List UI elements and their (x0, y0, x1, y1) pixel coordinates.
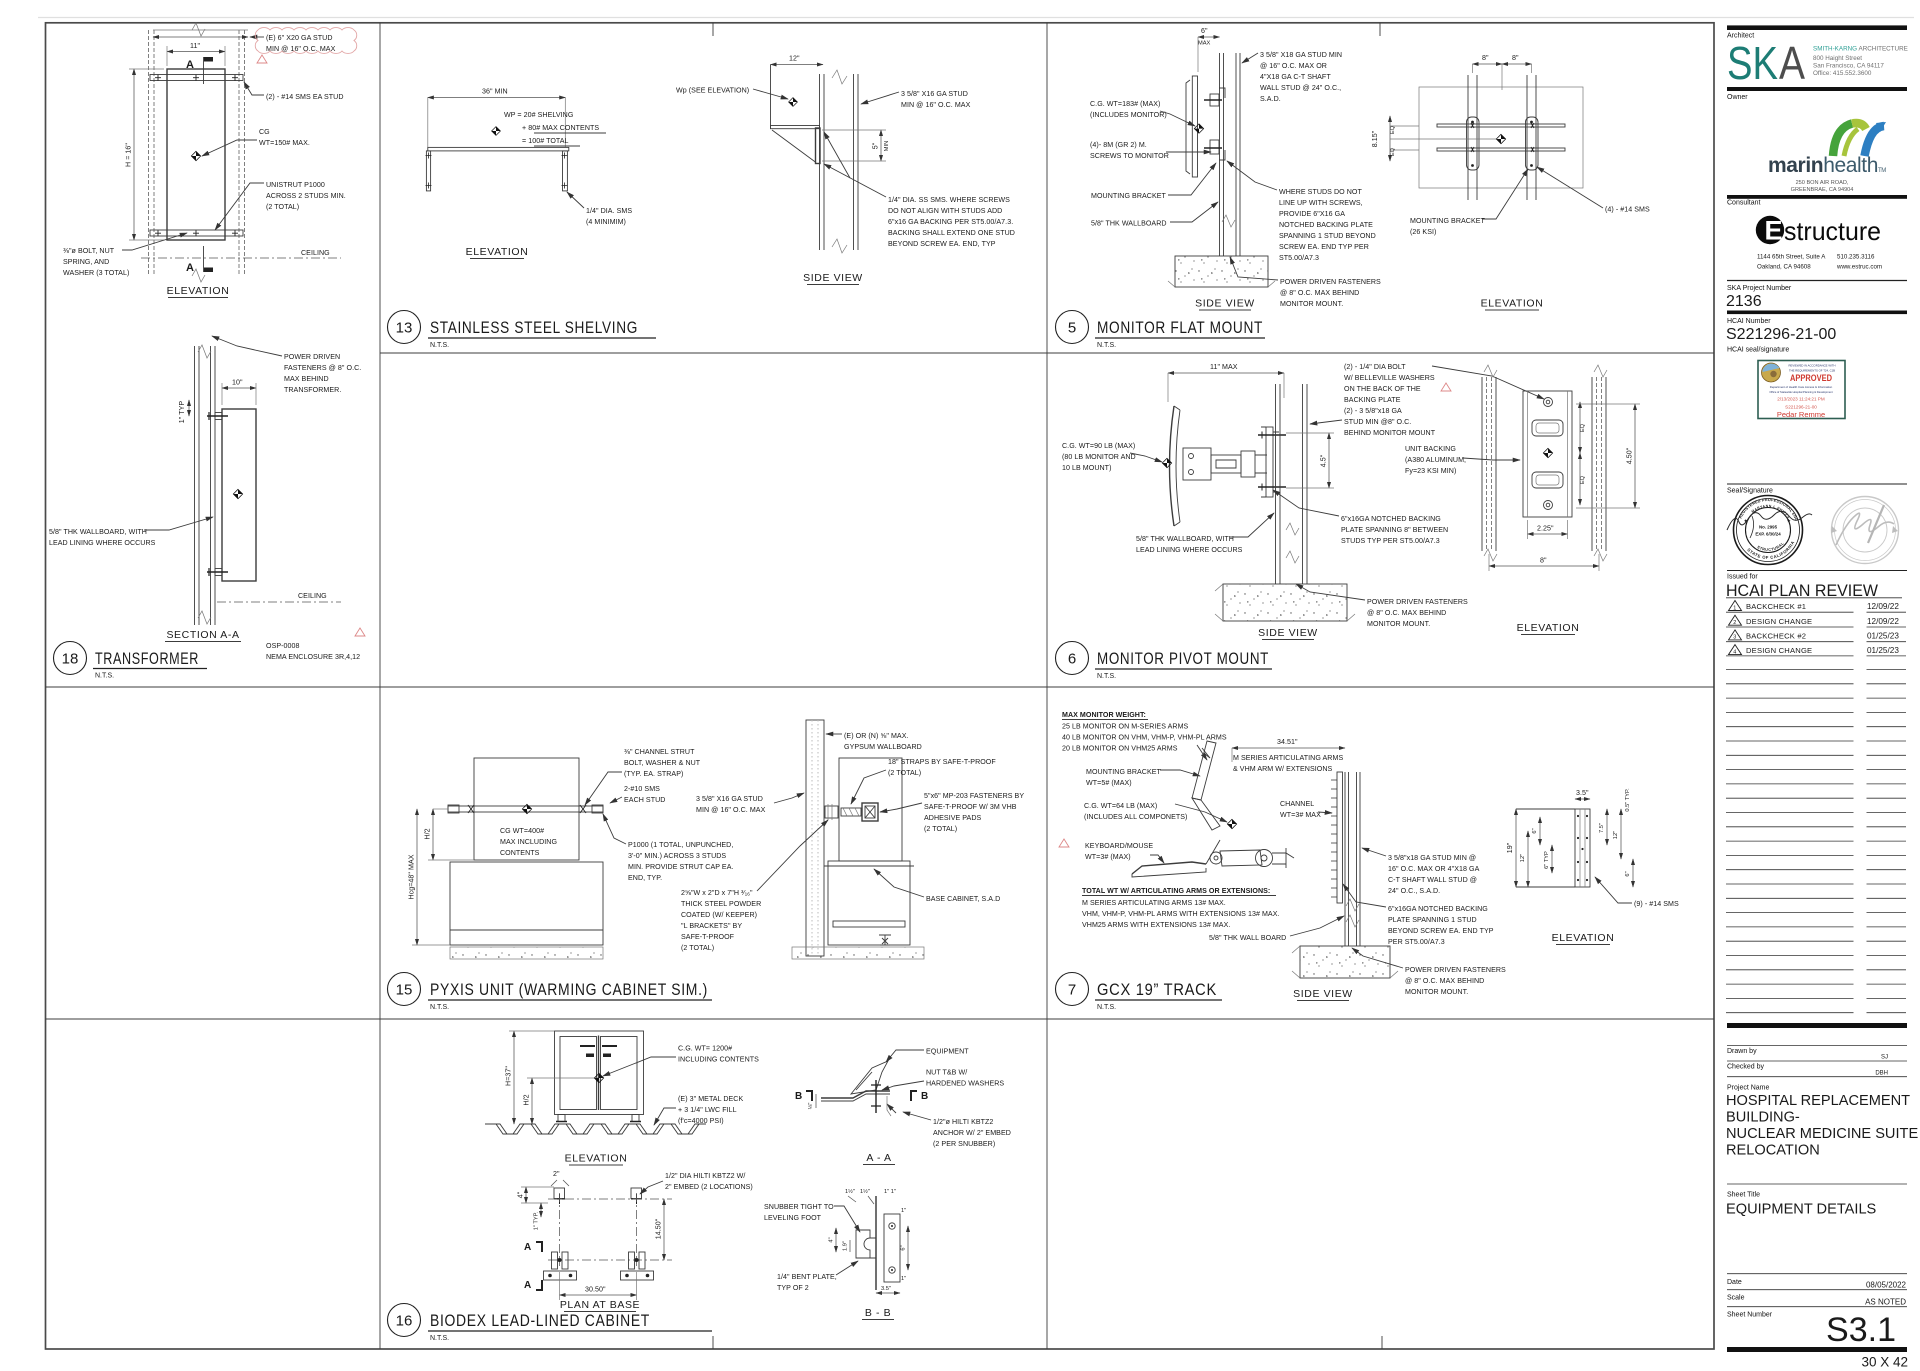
svg-text:RELOCATION: RELOCATION (1726, 1143, 1820, 1159)
svg-text:8": 8" (1540, 557, 1547, 565)
svg-text:MAX INCLUDING: MAX INCLUDING (500, 838, 557, 846)
svg-text:7.5": 7.5" (1599, 823, 1605, 833)
section A-A wall lines (194, 346, 196, 625)
svg-text:(4) - #14 SMS: (4) - #14 SMS (1605, 206, 1650, 214)
panel grid divider vertical x=380 (379, 23, 381, 1349)
svg-text:H=37": H=37" (505, 1066, 513, 1086)
section B-B drawing (875, 1196, 877, 1290)
svg-text:2" EMBED (2 LOCATIONS): 2" EMBED (2 LOCATIONS) (665, 1183, 753, 1191)
svg-text:ST5.00/A7.3: ST5.00/A7.3 (1279, 254, 1319, 262)
svg-text:2.25": 2.25" (1537, 525, 1554, 533)
svg-text:MONITOR MOUNT.: MONITOR MOUNT. (1280, 300, 1343, 308)
svg-text:MONITOR MOUNT.: MONITOR MOUNT. (1367, 620, 1430, 628)
svg-text:(2) - 1/4" DIA BOLT: (2) - 1/4" DIA BOLT (1344, 363, 1406, 371)
svg-text:LEAD LINING WHERE OCCURS: LEAD LINING WHERE OCCURS (1136, 546, 1243, 554)
svg-text:SIDE VIEW: SIDE VIEW (1258, 627, 1318, 639)
bolts elevation (1544, 398, 1553, 407)
wall (15 side view) (806, 720, 824, 956)
svg-text:8": 8" (1482, 54, 1489, 62)
svg-text:40 LB MONITOR ON VHM, VHM-P, V: 40 LB MONITOR ON VHM, VHM-P, VHM-PL ARMS (1062, 734, 1227, 742)
svg-text:MAX MONITOR WEIGHT:: MAX MONITOR WEIGHT: (1062, 711, 1146, 719)
shelf top (elevation) (428, 147, 569, 151)
blank revision rule lines (1726, 670, 1906, 1013)
svg-text:5"x6" MP-203 FASTENERS BY: 5"x6" MP-203 FASTENERS BY (924, 792, 1024, 800)
svg-text:4"X18 GA C-T SHAFT: 4"X18 GA C-T SHAFT (1260, 73, 1331, 81)
svg-text:TRANSFORMER: TRANSFORMER (95, 650, 199, 668)
svg-text:SIDE VIEW: SIDE VIEW (803, 272, 863, 284)
svg-text:3: 3 (1733, 635, 1736, 641)
svg-text:H/2: H/2 (424, 828, 432, 839)
svg-text:HARDENED WASHERS: HARDENED WASHERS (926, 1080, 1004, 1088)
svg-text:CG: CG (259, 128, 270, 136)
svg-text:GYPSUM WALLBOARD: GYPSUM WALLBOARD (844, 743, 922, 751)
svg-text:3.5": 3.5" (881, 1286, 891, 1292)
svg-text:(4)- 8M (GR 2) M.: (4)- 8M (GR 2) M. (1090, 141, 1147, 149)
svg-text:H/2: H/2 (523, 1094, 531, 1105)
svg-text:C.G. WT=90 LB (MAX): C.G. WT=90 LB (MAX) (1062, 442, 1135, 450)
svg-text:MAX BEHIND: MAX BEHIND (284, 375, 329, 383)
studs elevation (5) (1467, 75, 1469, 200)
svg-text:Sheet Number: Sheet Number (1727, 1312, 1773, 1319)
estructure logo (1756, 216, 1784, 244)
svg-text:15: 15 (396, 982, 413, 999)
svg-text:GREENBRAE, CA 94904: GREENBRAE, CA 94904 (1791, 187, 1854, 193)
svg-text:CEILING: CEILING (301, 249, 330, 257)
date row (1727, 1273, 1907, 1275)
svg-text:No. 2995: No. 2995 (1759, 525, 1778, 530)
svg-text:C-T SHAFT WALL STUD @: C-T SHAFT WALL STUD @ (1388, 876, 1477, 884)
8.15 EQ EQ dim (1389, 116, 1391, 161)
svg-text:2-#10 SMS: 2-#10 SMS (624, 785, 660, 793)
bottom unistrut P1000 (150, 230, 243, 236)
detail 7 title bubble (1056, 973, 1089, 1006)
svg-text:(2 TOTAL): (2 TOTAL) (266, 203, 299, 211)
svg-text:P1000 (1 TOTAL, UNPUNCHED,: P1000 (1 TOTAL, UNPUNCHED, (628, 841, 733, 849)
strap fastener assembly (825, 806, 838, 818)
14.50 dim (663, 1199, 665, 1260)
svg-text:SCREW EA. END TYP PER: SCREW EA. END TYP PER (1279, 243, 1369, 251)
svg-text:4": 4" (829, 1237, 835, 1242)
wall (7) (1344, 772, 1346, 946)
seal/signature divider (1727, 483, 1907, 485)
svg-text:2: 2 (1733, 620, 1736, 626)
svg-text:5: 5 (1068, 320, 1076, 337)
svg-text:H = 16": H = 16" (125, 143, 133, 167)
svg-text:(E) OR (N) ⅝" MAX.: (E) OR (N) ⅝" MAX. (844, 732, 909, 740)
svg-text:(26 KSI): (26 KSI) (1410, 228, 1436, 236)
svg-text:(9) - #14 SMS: (9) - #14 SMS (1634, 900, 1679, 908)
pyxis cabinet elevation (474, 758, 579, 860)
screws at intersections (1471, 123, 1534, 152)
CG pivot (1162, 458, 1171, 467)
svg-text:@ 16" O.C. MAX OR: @ 16" O.C. MAX OR (1260, 62, 1327, 70)
svg-text:N.T.S.: N.T.S. (1097, 1004, 1116, 1011)
svg-text:ELEVATION: ELEVATION (1517, 622, 1580, 634)
revision row 3 backcheck #2 (1726, 630, 1906, 642)
svg-text:(2) - 3 5/8"x18 GA: (2) - 3 5/8"x18 GA (1344, 407, 1402, 415)
svg-text:18: 18 (62, 651, 79, 668)
svg-text:ELEVATION: ELEVATION (466, 246, 529, 258)
svg-text:1/4" DIA. SMS: 1/4" DIA. SMS (586, 207, 632, 215)
svg-text:Department of Health Care Acce: Department of Health Care Access & Infor… (1770, 385, 1833, 389)
svg-text:7: 7 (1068, 982, 1076, 999)
svg-text:1/4" BENT PLATE,: 1/4" BENT PLATE, (777, 1273, 837, 1281)
svg-text:POWER DRIVEN FASTENERS: POWER DRIVEN FASTENERS (1280, 278, 1381, 286)
svg-text:A - A: A - A (866, 1152, 891, 1164)
revision cloud around note (255, 28, 356, 54)
svg-text:+ 80# MAX CONTENTS: + 80# MAX CONTENTS (522, 124, 599, 132)
svg-text:6"x16 GA BACKING PER ST5.00/A7: 6"x16 GA BACKING PER ST5.00/A7.3. (888, 218, 1013, 226)
svg-text:EXP. 6/30/24: EXP. 6/30/24 (1755, 532, 1781, 537)
backing plate side (1266, 427, 1273, 497)
transformer box section (222, 409, 256, 581)
svg-text:WT=150# MAX.: WT=150# MAX. (259, 139, 310, 147)
svg-text:MAX: MAX (1198, 41, 1211, 47)
svg-text:C.G. WT=64 LB (MAX): C.G. WT=64 LB (MAX) (1084, 802, 1157, 810)
svg-text:16: 16 (396, 1313, 413, 1330)
svg-text:1" 1": 1" 1" (884, 1189, 896, 1195)
svg-text:CEILING: CEILING (298, 592, 327, 600)
svg-text:KEYBOARD/MOUSE: KEYBOARD/MOUSE (1085, 842, 1153, 850)
detail 5 title bubble (1056, 311, 1089, 344)
8in dim (6) (1489, 565, 1599, 567)
biodex cabinet elevation (555, 1031, 644, 1115)
svg-text:Wp (SEE ELEVATION): Wp (SEE ELEVATION) (676, 87, 749, 95)
svg-text:TOTAL WT W/ ARTICULATING ARMS: TOTAL WT W/ ARTICULATING ARMS OR EXTENSI… (1082, 887, 1270, 895)
svg-text:WALL STUD @ 24" O.C.,: WALL STUD @ 24" O.C., (1260, 84, 1341, 92)
svg-text:APPROVED: APPROVED (1790, 373, 1832, 383)
4.5 dim (1328, 433, 1330, 488)
engineer signature scribble left (1727, 511, 1812, 530)
svg-text:HCAI PLAN REVIEW: HCAI PLAN REVIEW (1726, 582, 1878, 600)
concrete floor (7) (1300, 946, 1390, 978)
svg-text:(4 MINIMIM): (4 MINIMIM) (586, 218, 626, 226)
svg-text:3 5/8" X18 GA STUD MIN: 3 5/8" X18 GA STUD MIN (1260, 51, 1342, 59)
svg-text:01/25/23: 01/25/23 (1867, 646, 1899, 655)
titleblock top black bar (1727, 25, 1907, 30)
panel grid divider vertical x=1047 (1046, 23, 1048, 1349)
svg-text:24" O.C., S.A.D.: 24" O.C., S.A.D. (1388, 887, 1440, 895)
plan feet left (552, 1252, 558, 1269)
wall bracket plate (816, 128, 821, 164)
svg-text:1/2"ø HILTI KBTZ2: 1/2"ø HILTI KBTZ2 (933, 1118, 993, 1126)
CG pivot elevation (1543, 448, 1552, 457)
svg-text:END, TYP.: END, TYP. (628, 874, 662, 882)
svg-text:Project Name: Project Name (1727, 1085, 1770, 1092)
svg-text:12": 12" (1613, 831, 1619, 839)
svg-text:(E) 6" X20 GA STUD: (E) 6" X20 GA STUD (266, 34, 333, 42)
svg-text:B - B: B - B (865, 1307, 891, 1319)
svg-text:10": 10" (232, 379, 243, 387)
svg-text:5/8" THK WALL BOARD: 5/8" THK WALL BOARD (1209, 934, 1286, 942)
svg-text:2136: 2136 (1726, 293, 1762, 310)
slots (1532, 420, 1563, 436)
svg-text:www.estruc.com: www.estruc.com (1836, 264, 1882, 271)
svg-text:WT=5# (MAX): WT=5# (MAX) (1086, 779, 1132, 787)
svg-text:Date: Date (1727, 1279, 1742, 1286)
svg-text:E: E (1765, 216, 1783, 246)
svg-text:EACH STUD: EACH STUD (624, 796, 665, 804)
svg-text:TYP OF 2: TYP OF 2 (777, 1284, 809, 1292)
svg-text:⅛": ⅛" (808, 1103, 814, 1110)
svg-text:SAFE-T-PROOF: SAFE-T-PROOF (681, 933, 735, 941)
svg-text:GCX 19” TRACK: GCX 19” TRACK (1097, 981, 1217, 999)
3.5 dim (7) (1575, 798, 1590, 800)
svg-text:C.G. WT=183# (MAX): C.G. WT=183# (MAX) (1090, 100, 1160, 108)
svg-text:MONITOR FLAT MOUNT: MONITOR FLAT MOUNT (1097, 319, 1263, 337)
CG symbol shelving elevation (492, 127, 501, 136)
revision row 4 design change (1726, 645, 1906, 656)
svg-text:PYXIS UNIT (WARMING CABINET: PYXIS UNIT (WARMING CABINET SIM.) (430, 981, 708, 999)
4.50 dim (6) (1634, 404, 1636, 508)
svg-text:1": 1" (901, 1276, 906, 1282)
1in TYP dim plan (540, 1203, 542, 1217)
SKA project number bar (1727, 280, 1907, 282)
concrete base (5) (1175, 256, 1268, 287)
bottom black bar (1727, 1347, 1907, 1352)
svg-text:PER ST5.00/A7.3: PER ST5.00/A7.3 (1388, 938, 1445, 946)
svg-text:18" STRAPS BY SAFE-T-PROOF: 18" STRAPS BY SAFE-T-PROOF (888, 758, 996, 766)
svg-text:14.50": 14.50" (655, 1218, 663, 1239)
floor strip (15 elevation) (450, 947, 603, 959)
svg-text:08/05/2022: 08/05/2022 (1866, 1281, 1907, 1290)
svg-text:FASTENERS @ 8" O.C.: FASTENERS @ 8" O.C. (284, 364, 361, 372)
detail 16 title bubble (388, 1304, 421, 1337)
svg-text:(E) 3" METAL DECK: (E) 3" METAL DECK (678, 1095, 743, 1103)
34.51 dim (1232, 747, 1345, 749)
svg-text:(TYP. EA. STRAP): (TYP. EA. STRAP) (624, 770, 683, 778)
marinhealth logo arch symbol (1833, 122, 1886, 156)
side view 12in dim (771, 64, 824, 66)
svg-text:Pedar Remme: Pedar Remme (1777, 410, 1825, 419)
base cabinet side (828, 861, 910, 945)
top 8in dims (1473, 63, 1503, 65)
svg-text:6"x16GA NOTCHED BACKING: 6"x16GA NOTCHED BACKING (1388, 905, 1488, 913)
HCAI approved stamp (1758, 361, 1845, 420)
svg-text:2/13/2023 11:24:21 PM: 2/13/2023 11:24:21 PM (1777, 397, 1825, 402)
wall break marks (198, 345, 211, 358)
svg-text:BOLT, WASHER & NUT: BOLT, WASHER & NUT (624, 759, 701, 767)
revision row 1 backcheck #1 (1726, 601, 1906, 613)
10 inch dimension (222, 387, 256, 389)
svg-text:SNUBBER TIGHT TO: SNUBBER TIGHT TO (764, 1203, 834, 1211)
svg-text:Issued for: Issued for (1727, 574, 1758, 581)
svg-text:12": 12" (1520, 854, 1526, 862)
svg-text:San Francisco, CA 94117: San Francisco, CA 94117 (1813, 63, 1884, 70)
svg-text:A: A (186, 262, 194, 274)
wall stud side view (819, 74, 821, 250)
svg-text:2": 2" (553, 1170, 560, 1178)
svg-text:20 LB MONITOR ON VHM25 ARMS: 20 LB MONITOR ON VHM25 ARMS (1062, 745, 1178, 753)
svg-text:3 5/8"x18 GA STUD MIN @: 3 5/8"x18 GA STUD MIN @ (1388, 854, 1476, 862)
misc elevation dims (1539, 817, 1541, 845)
svg-text:C.G. WT= 1200#: C.G. WT= 1200# (678, 1045, 732, 1053)
CG monitor flat mount (1194, 124, 1203, 133)
svg-text:6": 6" (901, 1245, 907, 1250)
svg-text:1" TYP.: 1" TYP. (534, 1211, 540, 1230)
delta triangle marker (257, 55, 267, 63)
svg-text:CHANNEL: CHANNEL (1280, 800, 1314, 808)
svg-text:UNIT BACKING: UNIT BACKING (1405, 445, 1456, 453)
CG symbol elevation (191, 151, 200, 160)
svg-text:16" O.C. MAX OR 4"X18 GA: 16" O.C. MAX OR 4"X18 GA (1388, 865, 1480, 873)
H=37 dim (513, 1031, 515, 1124)
svg-text:30 X 42: 30 X 42 (1861, 1355, 1908, 1370)
svg-text:N.T.S.: N.T.S. (430, 1335, 449, 1342)
svg-text:W/ BELLEVILLE WASHERS: W/ BELLEVILLE WASHERS (1344, 374, 1435, 382)
svg-text:SKA Project Number: SKA Project Number (1727, 285, 1792, 292)
svg-text:34.51": 34.51" (1277, 738, 1298, 746)
svg-text:ELEVATION: ELEVATION (1552, 932, 1615, 944)
svg-text:BACKING SHALL EXTEND ONE STUD: BACKING SHALL EXTEND ONE STUD (888, 229, 1015, 237)
svg-text:6": 6" (1532, 828, 1538, 833)
H/2 dim (16) (531, 1078, 533, 1124)
svg-text:= 100# TOTAL: = 100# TOTAL (522, 137, 569, 145)
4in dim plan (525, 1187, 527, 1203)
svg-text:MOUNTING BRACKET: MOUNTING BRACKET (1086, 768, 1162, 776)
svg-text:(A380 ALUMINUM,: (A380 ALUMINUM, (1405, 456, 1466, 464)
svg-text:(INCLUDES MONITOR): (INCLUDES MONITOR) (1090, 111, 1167, 119)
11 inch dimension (167, 51, 225, 53)
svg-text:250 BON AIR ROAD,: 250 BON AIR ROAD, (1796, 180, 1849, 186)
svg-text:STAINLESS STEEL SHELVING: STAINLESS STEEL SHELVING (430, 319, 638, 337)
svg-text:EQ: EQ (1580, 423, 1586, 432)
panel grid divider horizontal y=1019 (46, 1018, 1715, 1020)
svg-text:(2) - #14 SMS EA STUD: (2) - #14 SMS EA STUD (266, 93, 344, 101)
delta triangle near section (355, 628, 365, 636)
drawn by row (1727, 1045, 1907, 1047)
svg-text:⅜"ø BOLT, NUT: ⅜"ø BOLT, NUT (63, 247, 115, 255)
svg-text:1144 65th Street, Suite A: 1144 65th Street, Suite A (1757, 254, 1826, 261)
1in TYP dimension (188, 400, 190, 416)
svg-text:BIODEX LEAD-LINED CABINET: BIODEX LEAD-LINED CABINET (430, 1312, 650, 1330)
svg-text:Office of Statewide Hospital P: Office of Statewide Hospital Planning & … (1769, 390, 1833, 394)
svg-text:THICK STEEL POWDER: THICK STEEL POWDER (681, 900, 761, 908)
HCAI number black bar (1727, 311, 1907, 315)
engineer seal right (faint) (1832, 497, 1899, 564)
svg-text:SAFE-T-PROOF W/ 3M VHB: SAFE-T-PROOF W/ 3M VHB (924, 803, 1017, 811)
svg-text:THE REQUIREMENTS OF T24, C1B: THE REQUIREMENTS OF T24, C1B (1789, 369, 1835, 373)
svg-text:510.235.3116: 510.235.3116 (1837, 254, 1875, 261)
svg-text:EQUIPMENT: EQUIPMENT (926, 1048, 969, 1056)
svg-text:DESIGN CHANGE: DESIGN CHANGE (1746, 617, 1812, 626)
shelf side profile (770, 65, 772, 130)
svg-text:19": 19" (1506, 842, 1514, 853)
svg-text:11": 11" (190, 42, 200, 50)
lower titleblock black bar (1727, 1023, 1907, 1028)
detail 18 elevation: existing stud dashed lines (149, 30, 245, 276)
svg-text:MIN. PROVIDE STRUT CAP EA.: MIN. PROVIDE STRUT CAP EA. (628, 863, 734, 871)
top mounting bolt (215, 413, 222, 420)
svg-text:5/8" THK WALLBOARD: 5/8" THK WALLBOARD (1091, 220, 1167, 228)
svg-text:6"x16GA NOTCHED BACKING: 6"x16GA NOTCHED BACKING (1341, 515, 1441, 523)
faint sheet trim line (38, 17, 1914, 19)
svg-text:BACKCHECK #2: BACKCHECK #2 (1746, 632, 1806, 641)
svg-text:"L BRACKETS" BY: "L BRACKETS" BY (681, 922, 742, 930)
svg-text:SJ: SJ (1881, 1055, 1888, 1061)
30.50 dim (560, 1294, 637, 1296)
svg-text:SIDE VIEW: SIDE VIEW (1195, 298, 1255, 310)
consultant section black bar (1727, 195, 1907, 199)
svg-text:5/8" THK WALLBOARD, WITH: 5/8" THK WALLBOARD, WITH (49, 528, 147, 536)
svg-text:UNISTRUT P1000: UNISTRUT P1000 (266, 181, 325, 189)
right shelf bracket (563, 151, 568, 191)
svg-text:BEYOND SCREW EA. END, TYP: BEYOND SCREW EA. END, TYP (888, 240, 996, 248)
svg-text:4.5": 4.5" (1320, 454, 1328, 467)
concrete floor (6) (1223, 584, 1347, 621)
svg-text:INCLUDING CONTENTS: INCLUDING CONTENTS (678, 1056, 759, 1064)
svg-text:N.T.S.: N.T.S. (95, 673, 114, 680)
ceiling line section (217, 601, 341, 603)
svg-text:Consultant: Consultant (1727, 200, 1761, 207)
svg-text:POWER DRIVEN: POWER DRIVEN (284, 353, 340, 361)
svg-text:A: A (524, 1280, 531, 1291)
svg-text:HCAI seal/signature: HCAI seal/signature (1727, 347, 1789, 354)
svg-text:4.50": 4.50" (1626, 447, 1634, 464)
svg-text:DO NOT ALIGN WITH STUDS ADD: DO NOT ALIGN WITH STUDS ADD (888, 207, 1002, 215)
svg-text:01/25/23: 01/25/23 (1867, 632, 1899, 641)
svg-text:Scale: Scale (1727, 1295, 1745, 1302)
svg-text:800 Haight Street: 800 Haight Street (1813, 55, 1862, 62)
svg-text:Seal/Signature: Seal/Signature (1727, 488, 1773, 495)
svg-text:⅜" CHANNEL STRUT: ⅜" CHANNEL STRUT (624, 748, 695, 756)
metal deck corrugation (485, 1124, 706, 1134)
svg-text:S3.1: S3.1 (1826, 1311, 1896, 1349)
svg-text:1½": 1½" (860, 1188, 870, 1195)
svg-text:3.5": 3.5" (1576, 789, 1589, 797)
11in MAX dim (1168, 372, 1284, 374)
svg-text:MIN @ 16" O.C. MAX: MIN @ 16" O.C. MAX (696, 806, 766, 814)
svg-text:Office: 415.552.3600: Office: 415.552.3600 (1813, 70, 1872, 77)
plan feet right (629, 1252, 635, 1269)
bolts through plate (1258, 435, 1286, 487)
mounting bracket pieces on wall (1210, 94, 1219, 106)
svg-text:CG WT=400#: CG WT=400# (500, 827, 544, 835)
svg-text:PLATE SPANNING 1 STUD: PLATE SPANNING 1 STUD (1388, 916, 1477, 924)
elevation track strip (1575, 809, 1590, 887)
svg-text:MONITOR MOUNT.: MONITOR MOUNT. (1405, 988, 1468, 996)
svg-text:CONTENTS: CONTENTS (500, 849, 540, 857)
svg-text:SECTION A-A: SECTION A-A (166, 629, 239, 641)
wall studs (6 side) (1275, 384, 1277, 584)
svg-text:structure: structure (1784, 216, 1881, 246)
svg-text:(2 TOTAL): (2 TOTAL) (888, 769, 921, 777)
svg-text:HCAI Number: HCAI Number (1727, 318, 1771, 325)
svg-text:MIN @ 16" O.C. MAX: MIN @ 16" O.C. MAX (901, 101, 971, 109)
svg-text:S221296-21-00: S221296-21-00 (1726, 326, 1836, 343)
panel grid divider horizontal y=687 (46, 686, 1715, 688)
svg-text:REVIEWED IN ACCORDANCE WITH: REVIEWED IN ACCORDANCE WITH (1789, 364, 1836, 368)
svg-text:B: B (921, 1091, 928, 1102)
svg-text:(80 LB MONITOR AND: (80 LB MONITOR AND (1062, 453, 1136, 461)
svg-text:ELEVATION: ELEVATION (1481, 298, 1544, 310)
section A-A equipment shape (851, 1061, 888, 1094)
svg-text:6": 6" (1201, 27, 1208, 35)
svg-text:A: A (1779, 37, 1805, 89)
svg-text:12/09/22: 12/09/22 (1867, 602, 1899, 611)
svg-text:SCREWS TO MONITOR: SCREWS TO MONITOR (1090, 152, 1169, 160)
H=16 dimension (133, 69, 135, 240)
svg-text:(INCLUDES ALL COMPONETS): (INCLUDES ALL COMPONETS) (1084, 813, 1187, 821)
svg-text:@ 8" O.C. MAX BEHIND: @ 8" O.C. MAX BEHIND (1405, 977, 1484, 985)
svg-text:MIN @ 16" O.C. MAX: MIN @ 16" O.C. MAX (266, 45, 336, 53)
svg-text:★: ★ (1787, 518, 1791, 523)
top unistrut P1000 (150, 75, 243, 81)
svg-text:POWER DRIVEN FASTENERS: POWER DRIVEN FASTENERS (1367, 598, 1468, 606)
svg-text:13: 13 (396, 320, 413, 337)
svg-text:1: 1 (1733, 605, 1736, 611)
svg-text:WHERE STUDS DO NOT: WHERE STUDS DO NOT (1279, 188, 1362, 196)
